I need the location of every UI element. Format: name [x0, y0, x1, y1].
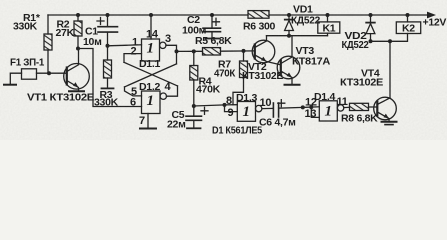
resistor R4: [193, 51, 195, 65]
wire D1.3 output: [262, 107, 273, 109]
ground R3: [102, 87, 114, 89]
+12V arrow: [427, 12, 436, 19]
wire D1.2 pin7 ground lead: [147, 114, 149, 128]
logic gate D1.2: [142, 91, 161, 114]
node D1.4 inputs: [301, 105, 305, 109]
node VT4 collector riser: [388, 39, 392, 43]
resistor R6 in supply rail: [248, 11, 269, 19]
node R4 / C5 / D1.3 input: [192, 104, 196, 108]
transistor VT3 KT817A: [277, 56, 300, 79]
node D1.1 out / R5: [175, 49, 179, 53]
node R4 branch: [192, 49, 196, 53]
wire collector node to D1.2 pin6: [78, 49, 142, 107]
ground F1: [4, 84, 16, 86]
wire to D1.2 pin5: [125, 87, 142, 96]
resistor R7: [243, 51, 245, 61]
ground C2: [206, 38, 219, 40]
node VT1 collector / R2: [76, 47, 80, 51]
ground VT4 emitter: [382, 121, 397, 123]
logic gate D1.1 (NOR as RS latch): [142, 39, 160, 61]
capacitor C2: [210, 13, 214, 17]
cross coupling X wires: [124, 62, 178, 86]
diode VD2 KD522: [369, 13, 373, 17]
capacitor C6: [272, 103, 274, 117]
wire to pin 1: [108, 45, 142, 46]
resistor R3: [107, 46, 109, 60]
node junction R1/F1/VT1 base: [47, 71, 51, 75]
wire R5 row: [177, 50, 203, 52]
ground VT3 emitter: [285, 84, 300, 86]
wire VT2/VT3 collector node to K1: [267, 35, 328, 37]
wire D1.2 output pin4 riser: [167, 86, 178, 96]
resistor R8: [344, 106, 350, 108]
resistor R1: [47, 15, 49, 34]
diode VD1 KD522: [287, 13, 291, 17]
wire to D1.3 pins: [194, 105, 225, 106]
capacitor C1: [106, 13, 110, 17]
logic gate D1.3: [237, 102, 255, 122]
piezo sensor F1 ZP-1: [22, 69, 37, 79]
relay K1: [326, 13, 330, 17]
capacitor C5: [193, 106, 195, 116]
wire top supply rail right section: [269, 14, 428, 16]
relay K2: [406, 13, 410, 17]
wire top supply rail left section: [48, 14, 248, 16]
ground C5: [187, 127, 201, 129]
transistor VT2 KT3102E: [252, 40, 275, 63]
logic gate D1.4: [319, 101, 337, 121]
node C1 / R3 / D1.1 pin1: [106, 44, 110, 48]
resistor R2: [76, 13, 80, 17]
wire D1.1 output pin3: [166, 45, 177, 64]
ground VT1 emitter: [69, 90, 84, 92]
wire D1.1 pin2 loop: [124, 54, 142, 63]
node R7 branch: [242, 49, 246, 53]
transistor VT1 KT3102E: [64, 64, 90, 90]
pin 14 wire: [149, 13, 153, 17]
transistor VT4 KT3102E: [374, 97, 397, 120]
resistor R5 horizontal: [203, 48, 221, 55]
ground D1.2 pin7: [140, 128, 156, 130]
